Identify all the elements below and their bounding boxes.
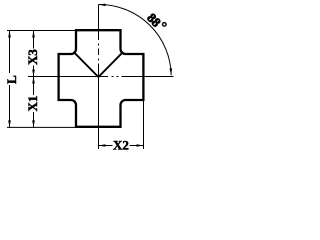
extension line bottom [7, 126, 76, 128]
centerline vertical dash [98, 49, 100, 56]
arrow arc top [99, 4, 106, 7]
centerline horizontal right (solid) [122, 76, 174, 78]
label X1 [25, 95, 40, 112]
arrow L top [8, 31, 11, 38]
arrow X3 top [32, 31, 35, 38]
cross body outline [59, 30, 144, 127]
centerline vertical upper (solid + dots) [98, 5, 100, 41]
svg-text:X3: X3 [25, 49, 40, 65]
dimension line X1 [33, 77, 35, 128]
centerline vertical dot 2 [98, 59, 100, 61]
centerline vertical lower (solid) [98, 64, 100, 150]
arrow X3 bottom [32, 70, 35, 77]
centerline horizontal left (solid) [28, 76, 108, 78]
arrow L bottom [8, 120, 11, 127]
dimension line X3 [33, 31, 35, 77]
degree symbol [163, 23, 167, 27]
arrow X1 bottom [32, 120, 35, 127]
arrow arc bottom [170, 68, 173, 75]
svg-text:X2: X2 [113, 138, 129, 153]
dimension line X2 [99, 145, 144, 147]
cross fitting dimension drawing [0, 0, 180, 157]
svg-text:L: L [4, 75, 19, 84]
label X2 [113, 138, 130, 153]
dimension line L [9, 31, 11, 128]
extension line X2 right (from cap down) [143, 100, 145, 149]
centerline vertical dot 1 [98, 44, 100, 46]
arrow X1 top [32, 77, 35, 84]
diagonal bore line to top-left corner [74, 52, 99, 77]
centerline horizontal dot 1 [112, 76, 114, 78]
angle dimension arc [99, 4, 172, 75]
svg-text:X1: X1 [25, 96, 40, 112]
label X3 [25, 49, 40, 66]
arrow X2 right [137, 144, 144, 147]
diagonal bore line to top-right corner [98, 52, 123, 77]
arrow X2 left [99, 144, 106, 147]
extension line top [7, 30, 76, 32]
centerline horizontal dot 2 [117, 76, 119, 78]
label L [4, 73, 19, 85]
